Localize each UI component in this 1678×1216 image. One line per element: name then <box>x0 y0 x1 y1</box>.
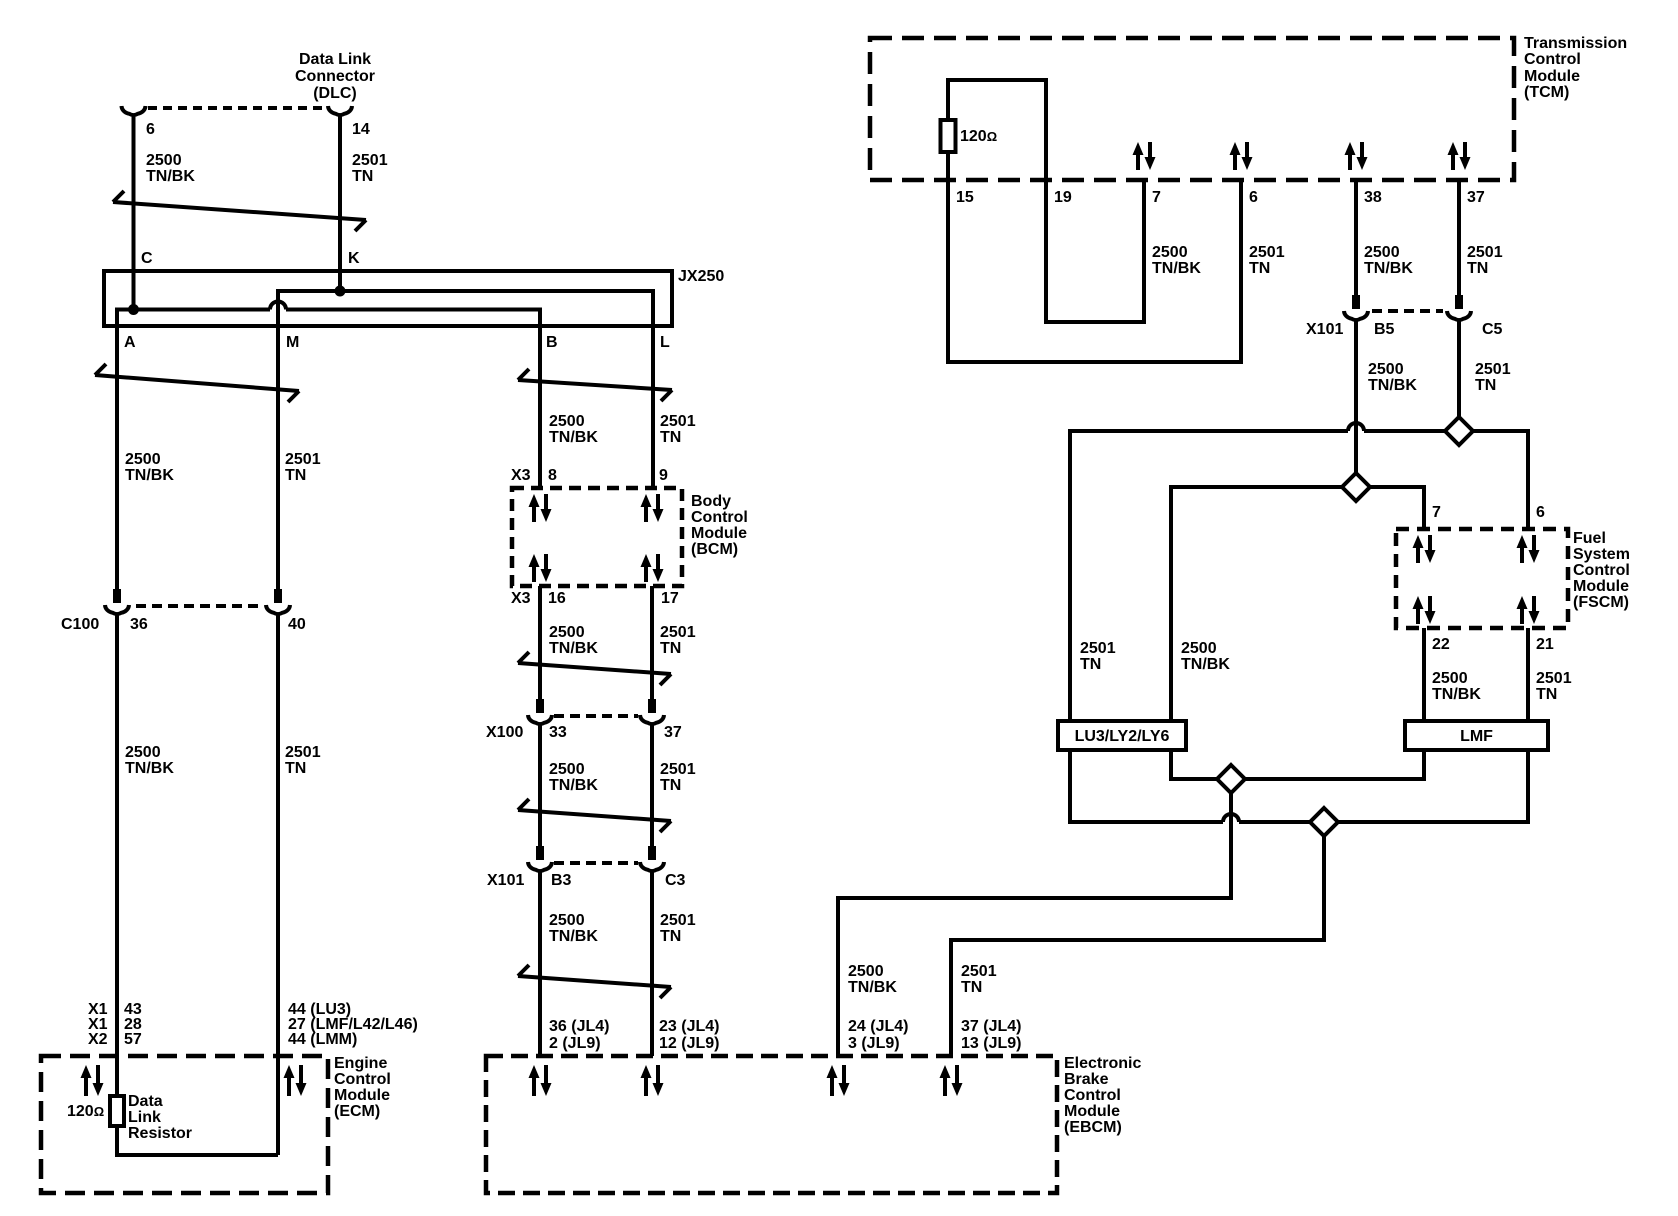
arrows FSCM pin 7 <box>1416 546 1420 563</box>
connector DLC cavity 14 <box>328 106 352 115</box>
wire 2500 TN/BK X101 to EBCM <box>538 870 542 1056</box>
wire 2500 TN/BK drop to LU3 <box>1169 485 1173 721</box>
svg-text:Control: Control <box>1573 562 1630 579</box>
svg-text:2501: 2501 <box>1467 244 1503 261</box>
svg-text:2500: 2500 <box>848 963 884 980</box>
svg-text:Brake: Brake <box>1064 1071 1109 1088</box>
svg-text:Data: Data <box>128 1093 163 1110</box>
svg-text:(FSCM): (FSCM) <box>1573 594 1629 611</box>
svg-text:2500: 2500 <box>125 451 161 468</box>
arrows BCM pin 17 <box>644 565 648 582</box>
engine option box LMF <box>1405 721 1548 750</box>
arrows EBCM pin 37/13 <box>943 1076 947 1096</box>
wire 2501 TN right drop to FSCM 6 <box>1526 429 1530 529</box>
svg-text:LU3/LY2/LY6: LU3/LY2/LY6 <box>1075 728 1170 745</box>
svg-text:Module: Module <box>334 1087 390 1104</box>
svg-text:LMF: LMF <box>1460 728 1493 745</box>
wire hop over 2500 drop <box>1223 814 1239 822</box>
connector DLC cavity 6 <box>122 106 146 115</box>
wire 2501 TN below LU3 <box>1068 750 1072 824</box>
arrows ECM right pin <box>287 1076 291 1096</box>
wire 2501 TN DLC pin14 to JX250 K <box>338 114 342 291</box>
wire 2500 TN/BK run to EBCM <box>836 896 1233 900</box>
svg-text:B: B <box>546 334 558 351</box>
arrows BCM pin 16 <box>532 565 536 582</box>
twisted pair symbol DLC wires <box>113 202 366 220</box>
wire 2501 TN X100 to X101 <box>650 723 654 847</box>
svg-text:17: 17 <box>661 590 679 607</box>
svg-text:TN: TN <box>1475 377 1496 394</box>
twisted pair symbol above EBCM <box>518 976 671 987</box>
svg-text:Control: Control <box>1064 1087 1121 1104</box>
svg-text:2501: 2501 <box>1536 670 1572 687</box>
wire hop over M <box>270 302 286 310</box>
twisted pair symbol above BCM <box>518 380 672 390</box>
svg-text:Control: Control <box>691 509 748 526</box>
resistor Data Link Resistor 120 ohm <box>110 1096 124 1126</box>
svg-text:2 (JL9): 2 (JL9) <box>549 1035 601 1052</box>
connector C100 pin 36 <box>113 589 121 603</box>
svg-text:B3: B3 <box>551 872 572 889</box>
bus wire lower net C-A-B segment right <box>286 308 540 312</box>
splice diamond 2500 <box>1342 473 1370 501</box>
connector X100 pin 33 <box>536 699 544 713</box>
wire 2500 TN/BK C100 to ECM <box>115 613 119 1096</box>
svg-text:2501: 2501 <box>285 451 321 468</box>
svg-text:M: M <box>286 334 299 351</box>
svg-text:Link: Link <box>128 1109 161 1126</box>
svg-text:TN: TN <box>285 467 306 484</box>
wire 2500 TN/BK drop from diamond <box>1229 792 1233 900</box>
wire TCM resistor top loop pin 19 to pin 7 <box>948 80 1144 322</box>
wire 2501 TN X101 to EBCM <box>650 870 654 1056</box>
svg-text:7: 7 <box>1432 504 1441 521</box>
svg-text:Control: Control <box>1524 51 1581 68</box>
svg-text:2500: 2500 <box>1364 244 1400 261</box>
svg-text:57: 57 <box>124 1031 142 1048</box>
svg-text:TN/BK: TN/BK <box>549 928 598 945</box>
connector X101 pin C3 <box>648 846 656 860</box>
svg-text:TN: TN <box>352 168 373 185</box>
wire TCM resistor bottom loop pin 15 to pin 6 <box>948 152 1241 362</box>
arrows ECM left pin <box>84 1076 88 1096</box>
wire 2501 TN TCM 37 to X101 <box>1457 180 1461 296</box>
wire 2500 TN/BK X101 B5 down <box>1354 319 1358 474</box>
resistor 120 ohm TCM <box>941 120 956 152</box>
svg-text:2501: 2501 <box>1249 244 1285 261</box>
svg-text:TN/BK: TN/BK <box>1432 686 1481 703</box>
svg-text:2501: 2501 <box>1475 361 1511 378</box>
svg-text:TN/BK: TN/BK <box>146 168 195 185</box>
svg-text:2500: 2500 <box>146 152 182 169</box>
svg-text:15: 15 <box>956 189 974 206</box>
wire 2500 TN/BK joining line right <box>1244 777 1426 781</box>
engine option box LU3/LY2/LY6 <box>1058 721 1186 750</box>
junction dot C <box>128 304 139 315</box>
svg-text:TN: TN <box>1536 686 1557 703</box>
svg-text:(BCM): (BCM) <box>691 541 738 558</box>
wire 2501 TN X101 C5 down <box>1457 319 1461 416</box>
svg-text:TN: TN <box>660 640 681 657</box>
svg-text:6: 6 <box>1249 189 1258 206</box>
svg-text:2500: 2500 <box>1432 670 1468 687</box>
connector C100 pin 40 <box>274 589 282 603</box>
svg-text:2501: 2501 <box>660 624 696 641</box>
svg-text:2501: 2501 <box>660 761 696 778</box>
svg-text:JX250: JX250 <box>678 268 724 285</box>
wire 2501 TN JX250 L to BCM <box>651 289 655 488</box>
wire 2501 TN bottom bus left segment <box>1068 820 1223 824</box>
twisted pair symbol above X100 <box>518 663 671 674</box>
bus wire upper net K-M-L <box>276 289 655 293</box>
arrows BCM pin 9 <box>644 505 648 522</box>
connector X101 pin B3 <box>536 846 544 860</box>
connector DLC dashed body <box>148 106 326 110</box>
svg-text:120Ω: 120Ω <box>67 1103 104 1120</box>
svg-text:38: 38 <box>1364 189 1382 206</box>
svg-text:8: 8 <box>548 467 557 484</box>
module ECM box <box>41 1056 328 1193</box>
svg-text:2501: 2501 <box>660 413 696 430</box>
splice diamond 2501 lower <box>1310 808 1338 836</box>
wire 2501 TN bus top mid segment <box>1364 429 1446 433</box>
svg-text:2500: 2500 <box>549 761 585 778</box>
svg-text:C: C <box>141 250 153 267</box>
wire 2500 TN/BK JX250 B to BCM <box>538 308 542 489</box>
svg-text:TN: TN <box>660 429 681 446</box>
arrows TCM pin 6 <box>1233 153 1237 170</box>
svg-text:7: 7 <box>1152 189 1161 206</box>
svg-text:TN/BK: TN/BK <box>1368 377 1417 394</box>
svg-text:TN: TN <box>1080 656 1101 673</box>
svg-text:3 (JL9): 3 (JL9) <box>848 1035 900 1052</box>
wire 2500 TN/BK JX250 A to C100 <box>115 308 119 591</box>
svg-text:2500: 2500 <box>1152 244 1188 261</box>
svg-text:Engine: Engine <box>334 1055 387 1072</box>
svg-text:13 (JL9): 13 (JL9) <box>961 1035 1021 1052</box>
svg-text:Module: Module <box>1573 578 1629 595</box>
wire 2501 TN left drop <box>1068 429 1072 721</box>
svg-text:2500: 2500 <box>549 912 585 929</box>
wire resistor bottom to ECM pin 44 <box>117 1126 278 1155</box>
wire 2501 TN bottom bus mid segment <box>1239 820 1311 824</box>
arrows FSCM pin 22 <box>1416 607 1420 624</box>
svg-text:Module: Module <box>1524 68 1580 85</box>
svg-text:(TCM): (TCM) <box>1524 84 1569 101</box>
svg-text:TN/BK: TN/BK <box>1181 656 1230 673</box>
wire 2500 TN/BK branch right <box>1369 485 1426 489</box>
svg-text:X3: X3 <box>511 590 531 607</box>
svg-text:C3: C3 <box>665 872 686 889</box>
svg-text:16: 16 <box>548 590 566 607</box>
wire 2501 TN JX250 M to C100 <box>276 289 280 590</box>
wire 2500 TN/BK FSCM 22 to LMF <box>1422 628 1426 721</box>
svg-text:TN: TN <box>961 979 982 996</box>
svg-text:TN/BK: TN/BK <box>1152 260 1201 277</box>
svg-text:B5: B5 <box>1374 321 1395 338</box>
wire 2501 TN FSCM 21 to LMF <box>1526 628 1530 721</box>
wire 2500 TN/BK branch left <box>1169 485 1343 489</box>
arrows FSCM pin 6 <box>1520 546 1524 563</box>
svg-text:L: L <box>660 334 670 351</box>
svg-text:2500: 2500 <box>1368 361 1404 378</box>
wire 2500 TN/BK EBCM riser <box>836 896 840 1056</box>
svg-text:40: 40 <box>288 616 306 633</box>
svg-text:Fuel: Fuel <box>1573 530 1606 547</box>
wire 2500 TN/BK below LU3 <box>1169 750 1173 781</box>
svg-text:37: 37 <box>664 724 682 741</box>
svg-text:TN/BK: TN/BK <box>1364 260 1413 277</box>
svg-text:System: System <box>1573 546 1630 563</box>
svg-text:C5: C5 <box>1482 321 1503 338</box>
svg-text:Transmission: Transmission <box>1524 35 1627 52</box>
wire 2500 TN/BK TCM 38 to X101 <box>1354 180 1358 296</box>
svg-text:120Ω: 120Ω <box>960 128 997 145</box>
svg-text:6: 6 <box>1536 504 1545 521</box>
twisted pair symbol above X101 <box>518 810 671 821</box>
module BCM box <box>512 488 682 586</box>
module TCM box <box>870 38 1514 180</box>
twisted pair symbol below JX250 left <box>95 375 299 391</box>
svg-text:2500: 2500 <box>1181 640 1217 657</box>
svg-text:14: 14 <box>352 121 370 138</box>
wire 2501 TN run to EBCM <box>949 938 1326 942</box>
wire 2501 TN EBCM riser <box>949 938 953 1056</box>
module EBCM box <box>486 1056 1057 1193</box>
svg-text:TN: TN <box>660 928 681 945</box>
svg-text:TN/BK: TN/BK <box>549 777 598 794</box>
svg-text:TN: TN <box>1467 260 1488 277</box>
connector X101 dashed body right <box>1372 309 1443 313</box>
splice diamond 2501 top <box>1445 417 1473 445</box>
svg-text:21: 21 <box>1536 636 1554 653</box>
svg-text:(DLC): (DLC) <box>313 85 357 102</box>
svg-text:X101: X101 <box>487 872 524 889</box>
wire 2501 TN drop from diamond <box>1322 835 1326 942</box>
svg-text:X101: X101 <box>1306 321 1343 338</box>
svg-text:9: 9 <box>659 467 668 484</box>
svg-text:12 (JL9): 12 (JL9) <box>659 1035 719 1052</box>
connector X101 dashed body <box>554 861 638 865</box>
svg-text:Resistor: Resistor <box>128 1125 192 1142</box>
svg-text:TN: TN <box>285 760 306 777</box>
svg-text:K: K <box>348 250 360 267</box>
svg-text:19: 19 <box>1054 189 1072 206</box>
svg-text:44 (LMM): 44 (LMM) <box>288 1031 357 1048</box>
arrows TCM pin 37 <box>1451 153 1455 170</box>
svg-text:X100: X100 <box>486 724 523 741</box>
svg-text:Data Link: Data Link <box>299 51 371 68</box>
svg-text:TN/BK: TN/BK <box>125 760 174 777</box>
svg-text:36: 36 <box>130 616 148 633</box>
svg-text:36 (JL4): 36 (JL4) <box>549 1018 609 1035</box>
svg-text:(ECM): (ECM) <box>334 1103 380 1120</box>
svg-text:2500: 2500 <box>549 413 585 430</box>
module FSCM box <box>1396 529 1568 628</box>
svg-text:Connector: Connector <box>295 68 375 85</box>
svg-text:(EBCM): (EBCM) <box>1064 1119 1122 1136</box>
svg-text:TN/BK: TN/BK <box>549 640 598 657</box>
svg-text:Module: Module <box>691 525 747 542</box>
arrows TCM pin 38 <box>1348 153 1352 170</box>
arrows FSCM pin 21 <box>1520 607 1524 624</box>
wire 2500 TN/BK drop to FSCM 7 <box>1422 485 1426 529</box>
svg-text:TN: TN <box>1249 260 1270 277</box>
connector X100 pin 37 <box>648 699 656 713</box>
connector X100 dashed body <box>554 714 638 718</box>
connector X101 pin C5 <box>1455 295 1463 309</box>
svg-text:2501: 2501 <box>1080 640 1116 657</box>
svg-text:Body: Body <box>691 493 731 510</box>
svg-text:Module: Module <box>1064 1103 1120 1120</box>
svg-text:2501: 2501 <box>285 744 321 761</box>
wire 2501 TN bottom bus right segment <box>1337 820 1530 824</box>
svg-text:22: 22 <box>1432 636 1450 653</box>
svg-text:C100: C100 <box>61 616 99 633</box>
svg-text:33: 33 <box>549 724 567 741</box>
connector X101 pin B5 <box>1352 295 1360 309</box>
wire 2501 TN BCM 17 to X100 <box>650 586 654 700</box>
svg-text:X2: X2 <box>88 1031 108 1048</box>
wire 2500 TN/BK X100 to X101 <box>538 723 542 847</box>
svg-text:Electronic: Electronic <box>1064 1055 1141 1072</box>
svg-text:24 (JL4): 24 (JL4) <box>848 1018 908 1035</box>
wire 2501 TN C100 to ECM <box>276 613 280 1155</box>
wire 2501 TN bus top right segment <box>1472 429 1530 433</box>
svg-text:23 (JL4): 23 (JL4) <box>659 1018 719 1035</box>
arrows EBCM pin 23/12 <box>644 1076 648 1096</box>
svg-text:TN/BK: TN/BK <box>848 979 897 996</box>
svg-text:2501: 2501 <box>352 152 388 169</box>
arrows EBCM pin 24/3 <box>830 1076 834 1096</box>
arrows TCM pin 7 <box>1136 153 1140 170</box>
svg-text:X3: X3 <box>511 467 531 484</box>
arrows BCM pin 8 <box>532 505 536 522</box>
wire hop over B5 <box>1348 423 1364 431</box>
wire 2501 TN bus top left segment <box>1068 429 1348 433</box>
svg-text:2501: 2501 <box>961 963 997 980</box>
svg-text:37 (JL4): 37 (JL4) <box>961 1018 1021 1035</box>
svg-text:A: A <box>124 334 136 351</box>
svg-text:TN: TN <box>660 777 681 794</box>
svg-text:Control: Control <box>334 1071 391 1088</box>
arrows EBCM pin 36/2 <box>532 1076 536 1096</box>
svg-text:2500: 2500 <box>549 624 585 641</box>
splice diamond 2500 lower <box>1217 765 1245 793</box>
wire 2500 TN/BK DLC pin6 to JX250 C <box>132 114 136 310</box>
bus wire lower net C-A-B segment left <box>115 308 270 312</box>
svg-text:TN/BK: TN/BK <box>549 429 598 446</box>
splice pack JX250 box <box>104 271 672 326</box>
connector C100 dashed body <box>136 604 262 608</box>
wire 2500 TN/BK joining line left <box>1169 777 1218 781</box>
svg-text:2500: 2500 <box>125 744 161 761</box>
svg-text:37: 37 <box>1467 189 1485 206</box>
svg-text:TN/BK: TN/BK <box>125 467 174 484</box>
wire 2500 TN/BK BCM 16 to X100 <box>538 586 542 700</box>
svg-text:6: 6 <box>146 121 155 138</box>
svg-text:2501: 2501 <box>660 912 696 929</box>
wire 2500 TN/BK below LMF <box>1422 750 1426 781</box>
wire 2501 TN below LMF <box>1526 750 1530 824</box>
junction dot K <box>335 286 346 297</box>
